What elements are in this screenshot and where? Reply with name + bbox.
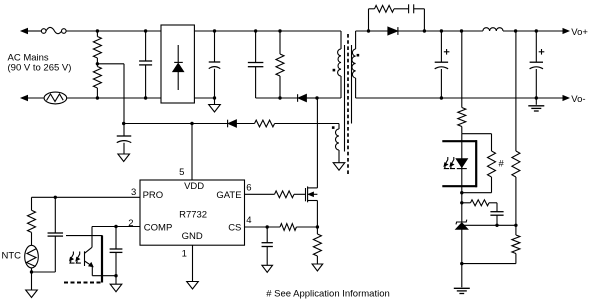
wire inductor to Vo+ xyxy=(503,30,564,32)
node junction C11 / ref line xyxy=(495,224,498,227)
node junction Vo+ / C10 xyxy=(535,29,538,32)
wire anode to divider bottom xyxy=(462,263,516,265)
capacitor C9 output electrolytic xyxy=(440,31,442,62)
wire LED string xyxy=(461,134,463,222)
transistor U2 optocoupler phototransistor xyxy=(91,227,93,248)
capacitor C2 bulk electrolytic xyxy=(214,31,216,62)
transformer T1 secondary winding xyxy=(355,31,357,49)
node junction top rail / clamp R3 xyxy=(278,29,281,32)
svg-text:# See Application Information: # See Application Information xyxy=(266,289,390,300)
resistor R14 divider lower xyxy=(515,225,517,235)
earth ground output xyxy=(535,98,537,105)
transformer T1 auxiliary winding xyxy=(338,124,340,130)
Vo- arrow xyxy=(563,96,569,101)
op-amp U1 R7732 controller box xyxy=(140,180,245,245)
transformer T1 aux polarity dot xyxy=(332,126,335,129)
svg-text:(90 V to 265 V): (90 V to 265 V) xyxy=(8,62,72,73)
node junction bottom rail / R2 xyxy=(96,96,99,99)
C9 plus sign xyxy=(444,51,450,53)
transistor Q1 MOSFET xyxy=(305,188,307,201)
node junction snubber left xyxy=(367,29,370,32)
wire COMP pin line xyxy=(92,226,140,228)
wire R13 to ref xyxy=(515,177,517,225)
capacitor C7 COMP xyxy=(115,227,117,250)
svg-text:NTC: NTC xyxy=(2,250,22,261)
earth ground TL431 xyxy=(461,264,463,288)
node junction divider feed xyxy=(460,29,463,32)
capacitor C1 X-cap xyxy=(145,31,147,61)
node divider tap xyxy=(96,62,99,65)
resistor R7 current sense xyxy=(316,227,318,234)
transformer T1 primary winding xyxy=(340,31,342,49)
resistor R10 opto feed xyxy=(458,108,466,127)
bridge rectifier BR1 xyxy=(161,25,194,103)
diode D2 VDD xyxy=(227,120,229,128)
capacitor C5 CS xyxy=(266,227,268,243)
diode D4 TL431 shunt regulator xyxy=(456,220,467,225)
ground C7 xyxy=(115,276,117,285)
wire R11 bottom to LED cathode xyxy=(462,192,492,194)
U2 package outline (LED side) xyxy=(442,140,477,142)
resistor R5 gate xyxy=(275,191,295,198)
transformer T1 secondary polarity dot xyxy=(357,54,360,57)
node junction Vo- / C10 xyxy=(535,96,538,99)
svg-text:1: 1 xyxy=(182,249,187,260)
wire top rail to transformer xyxy=(194,30,341,32)
resistor R4 VDD xyxy=(255,120,275,127)
resistor R3 clamp xyxy=(279,31,281,54)
varistor RV1 (MOV) xyxy=(44,92,67,104)
wire LED anode node xyxy=(462,133,492,135)
transformer T1 core xyxy=(344,45,346,152)
svg-text:Vo+: Vo+ xyxy=(571,27,588,38)
wire AC line to fuse xyxy=(27,30,42,32)
svg-text:CS: CS xyxy=(228,223,241,234)
U2 light arrows xyxy=(71,252,74,260)
capacitor C8 snubber xyxy=(408,4,410,13)
inductor L1 output xyxy=(483,28,503,31)
svg-text:6: 6 xyxy=(246,182,251,193)
wire sense divider vertical xyxy=(515,31,517,151)
resistor R9 snubber xyxy=(368,9,370,31)
node junction C9 bottom xyxy=(440,96,443,99)
node junction TL431 anode xyxy=(460,262,463,265)
resistor R8 NTC series xyxy=(28,210,36,232)
wire Q1 source xyxy=(316,201,318,228)
wire R6 to source xyxy=(296,226,317,228)
node junction snubber right xyxy=(423,29,426,32)
ground NTC net xyxy=(31,272,33,290)
wire clamp bottom xyxy=(256,97,298,99)
svg-text:GND: GND xyxy=(182,231,203,242)
diode D3 output xyxy=(388,27,398,35)
node junction drain / primary bottom xyxy=(315,96,318,99)
U2 package outline (transistor side) xyxy=(66,235,103,237)
wire R8 to NTC xyxy=(31,232,33,245)
ground primary DC- xyxy=(214,98,216,105)
AC neutral terminal arrow xyxy=(21,96,27,101)
node junction COMP / C7 xyxy=(114,225,117,228)
node junction source / Rsense xyxy=(316,225,319,228)
node junction NTC bottom xyxy=(30,270,33,273)
svg-text:COMP: COMP xyxy=(144,223,173,234)
U2 LED light arrows xyxy=(445,157,448,165)
node junction Vo+ / sense xyxy=(514,29,517,32)
capacitor C4 VDD xyxy=(117,135,132,137)
wire bottom rail MOV to bridge xyxy=(67,97,161,99)
capacitor C3 clamp xyxy=(255,31,257,63)
wire PRO pin line xyxy=(32,196,141,198)
node junction top rail / clamp C3 xyxy=(254,29,257,32)
fuse F1 xyxy=(41,29,46,34)
node junction top rail / C2 xyxy=(213,29,216,32)
svg-text:#: # xyxy=(499,158,505,169)
node junction DC- / C2 xyxy=(213,96,216,99)
wire NTC bottom to C6 xyxy=(32,271,56,273)
node junction clamp R3/C3 xyxy=(278,96,281,99)
U2 LED xyxy=(456,159,467,168)
wire R10 to LED node xyxy=(461,127,463,134)
node junction top rail / startup divider xyxy=(96,29,99,32)
svg-text:R7732: R7732 xyxy=(179,210,207,221)
wire Vo- rail xyxy=(356,97,564,99)
wire AC neutral to varistor xyxy=(27,97,45,99)
wire startup feed vertical xyxy=(123,64,125,136)
wire CS pin line xyxy=(245,226,281,228)
resistor R12 TL431 comp xyxy=(462,202,471,204)
svg-text:VDD: VDD xyxy=(184,181,204,192)
thermistor RT1 NTC xyxy=(25,245,39,268)
ground C4 xyxy=(118,154,130,162)
wire Q1 drain xyxy=(316,98,318,188)
resistor R11 opto bias xyxy=(491,134,493,151)
node junction VDD line / startup feed xyxy=(122,122,125,125)
node junction CS / C5 xyxy=(266,225,269,228)
capacitor C11 TL431 comp xyxy=(496,203,498,212)
svg-text:3: 3 xyxy=(131,187,136,198)
transformer T1 primary polarity dot xyxy=(333,69,336,72)
wire R5 to gate xyxy=(294,193,306,195)
node junction comp RC tap xyxy=(460,201,463,204)
node junction top rail / C1 xyxy=(144,29,147,32)
wire TL431 ref line xyxy=(462,224,516,226)
resistor R1 startup upper xyxy=(96,31,98,37)
node junction PRO / C6 xyxy=(54,196,57,199)
wire top rail fuse to bridge xyxy=(66,30,161,32)
wire R4 to aux winding xyxy=(275,123,339,125)
pin 5 VDD stem xyxy=(191,124,193,181)
node junction LED cathode xyxy=(460,191,463,194)
node junction C9 top xyxy=(440,29,443,32)
resistor R13 divider upper xyxy=(512,151,520,177)
ground R7 xyxy=(312,264,323,271)
pin 1 GND stem xyxy=(192,245,194,281)
svg-text:Vo-: Vo- xyxy=(571,94,585,105)
capacitor C10 output electrolytic xyxy=(535,31,537,62)
resistor R2 startup lower xyxy=(93,67,101,89)
wire divider feed vertical xyxy=(461,31,463,108)
node junction VDD stem xyxy=(190,122,193,125)
node junction ref / divider xyxy=(514,224,517,227)
wire GATE pin to R5 xyxy=(245,193,275,195)
Vo+ arrow xyxy=(563,29,569,34)
svg-text:2: 2 xyxy=(128,218,133,229)
ground aux winding xyxy=(333,163,345,171)
svg-text:4: 4 xyxy=(246,215,251,226)
wire emitter to ground net xyxy=(92,275,116,277)
svg-text:5: 5 xyxy=(179,167,184,178)
wire bridge DC- to bulk cap xyxy=(194,97,214,99)
svg-text:PRO: PRO xyxy=(143,190,164,201)
node junction bottom rail / C1 xyxy=(144,96,147,99)
ground U1 GND xyxy=(187,282,199,290)
wire VDD supply line xyxy=(124,123,228,125)
capacitor C6 PRO xyxy=(54,197,56,233)
ground C5 xyxy=(262,265,273,272)
resistor R6 CS filter xyxy=(280,224,296,231)
wire clamp diode to primary bottom xyxy=(317,97,341,99)
wire PRO left leg xyxy=(31,197,33,210)
AC input terminal arrow (line) xyxy=(21,29,27,34)
diode D1 clamp xyxy=(297,94,299,102)
wire secondary top to diode xyxy=(356,30,388,32)
wire diode to inductor xyxy=(398,30,483,32)
C10 plus sign xyxy=(539,51,545,53)
svg-text:GATE: GATE xyxy=(216,190,241,201)
node junction C7 / emitter xyxy=(114,274,117,277)
wire divider tap to VDD feed xyxy=(97,63,124,65)
